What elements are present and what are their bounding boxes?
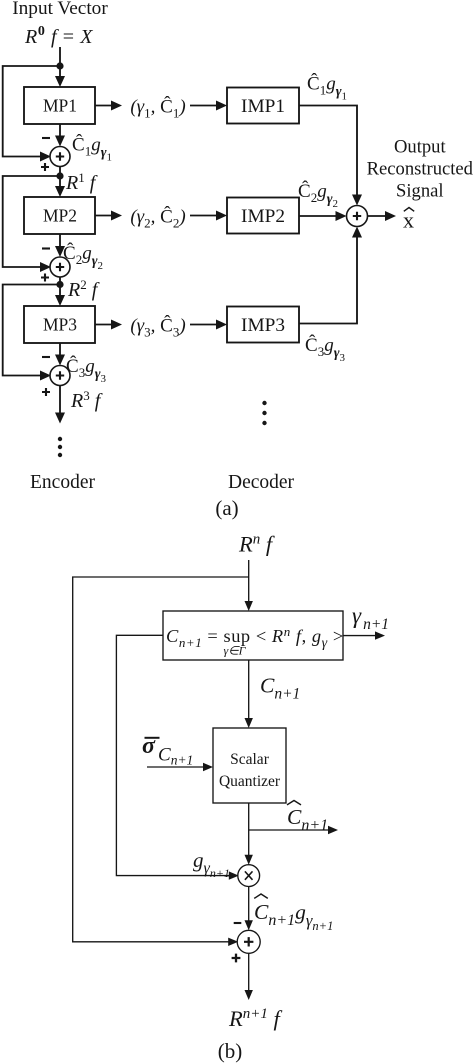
block MP2 bbox=[24, 197, 95, 234]
node: encoder continuation dots bbox=[58, 437, 62, 457]
wire: residual output bbox=[245, 953, 253, 1000]
wire: gamma n+1 arrow bbox=[343, 631, 385, 639]
label: Chat n+1 g gamma n+1 bbox=[254, 894, 333, 933]
adder: subtractor row 1 bbox=[50, 147, 70, 167]
wire: junction to MP3 bbox=[55, 285, 65, 307]
wire: summer output xhat bbox=[368, 211, 397, 221]
svg-text:Input Vector: Input Vector bbox=[12, 0, 108, 19]
wire: input drop to MP1 bbox=[55, 47, 65, 87]
node: decoder continuation dots bbox=[262, 401, 266, 425]
wire: adder1 to R1f junction bbox=[59, 167, 61, 177]
label: (a) caption bbox=[215, 496, 238, 520]
wire: Cn+1 into quantizer bbox=[245, 660, 253, 728]
label: (gamma2, C2) coefficients bbox=[130, 206, 185, 231]
node: R1f junction bbox=[56, 172, 63, 179]
svg-text:IMP3: IMP3 bbox=[241, 315, 285, 336]
label: C3 g gamma3 (decoder) bbox=[305, 334, 346, 364]
wire: MP2 to subtractor bbox=[55, 234, 65, 257]
label: (gamma3, C3) coefficients bbox=[130, 315, 185, 340]
label: xhat reconstructed output bbox=[403, 208, 414, 233]
svg-text:Output: Output bbox=[394, 137, 446, 158]
wire: IMP1 to summer bbox=[299, 106, 362, 206]
label: R0f = X input signal bbox=[24, 24, 93, 48]
wire: coefficients to IMP1 bbox=[190, 101, 227, 111]
label: C3 g gamma3 (encoder) bbox=[66, 355, 107, 385]
wire: adder2 to R2f junction bbox=[59, 277, 61, 285]
svg-text:MP1: MP1 bbox=[43, 96, 77, 116]
svg-text:R0 f = X: R0 f = X bbox=[24, 24, 93, 48]
block: scalar quantizer bbox=[213, 728, 286, 803]
svg-text:IMP2: IMP2 bbox=[241, 206, 285, 227]
label: C2 g gamma2 (encoder) bbox=[63, 242, 103, 272]
block: correlation sup block bbox=[163, 611, 343, 660]
wire: adder3 output R3f bbox=[55, 386, 65, 424]
block IMP3 bbox=[227, 307, 299, 343]
svg-text:Reconstructed: Reconstructed bbox=[367, 159, 474, 180]
wire: MP1 output bbox=[95, 101, 122, 111]
label: sigma bar quantizer step bbox=[142, 733, 193, 768]
label: plus sign row 2 bbox=[41, 274, 49, 282]
label: Decoder caption bbox=[228, 472, 295, 493]
label: C1 g gamma1 (encoder) bbox=[72, 134, 112, 164]
adder: subtractor row 3 bbox=[50, 366, 70, 386]
block MP1 bbox=[24, 87, 95, 124]
label: Rnf input bbox=[238, 532, 275, 557]
svg-text:IMP1: IMP1 bbox=[241, 96, 285, 117]
label: sup formula bbox=[166, 624, 344, 658]
wire: Chat n+1 tap bbox=[249, 826, 338, 834]
label: Output heading bbox=[394, 137, 446, 158]
wire: feedback branch 3 bbox=[3, 285, 60, 381]
label: R2f residual bbox=[67, 277, 100, 301]
label: plus sign row 3 bbox=[42, 388, 50, 396]
node: input junction bbox=[56, 62, 63, 69]
adder: final subtractor bbox=[237, 930, 260, 953]
wire: coefficients to IMP3 bbox=[190, 320, 227, 330]
svg-text:(b): (b) bbox=[218, 1039, 243, 1063]
label: plus sign row 1 bbox=[41, 163, 49, 171]
label: C1 g gamma1 (decoder) bbox=[307, 73, 347, 103]
label: Cn+1 coefficient bbox=[260, 674, 300, 703]
wire: MP3 output bbox=[95, 320, 122, 330]
wire: quantizer output bbox=[248, 803, 250, 830]
wire: IMP3 to summer bbox=[299, 227, 362, 324]
svg-text:MP3: MP3 bbox=[43, 315, 77, 335]
label: minus sign row 2 bbox=[42, 247, 50, 249]
label: Rn+1 f residual bbox=[228, 1006, 283, 1031]
block IMP2 bbox=[227, 198, 299, 234]
label: minus sign row 3 bbox=[42, 356, 50, 358]
wire: IMP2 to summer bbox=[299, 211, 347, 221]
label: gamma n+1 output bbox=[352, 603, 389, 633]
wire: MP3 to subtractor bbox=[55, 343, 65, 366]
label: minus sign row 1 bbox=[42, 137, 50, 139]
wire: Rnf into sup block bbox=[245, 560, 253, 611]
svg-text:(a): (a) bbox=[215, 496, 238, 520]
svg-text:γ∈Γ: γ∈Γ bbox=[223, 644, 246, 658]
wire: scaled atom to subtractor bbox=[245, 887, 253, 931]
svg-text:Signal: Signal bbox=[396, 181, 444, 202]
label: R3f residual bbox=[70, 388, 103, 412]
label: Chat n+1 bbox=[287, 801, 328, 835]
wire: outer feedback to subtractor bbox=[73, 577, 249, 946]
label: Signal heading bbox=[396, 181, 444, 202]
wire: coefficients to IMP2 bbox=[190, 211, 227, 221]
svg-text:Decoder: Decoder bbox=[228, 472, 295, 493]
wire: feedback branch 2 bbox=[3, 176, 60, 272]
adder: subtractor row 2 bbox=[50, 257, 70, 277]
label: minus sign part b bbox=[234, 922, 242, 924]
wire: MP2 output bbox=[95, 211, 122, 221]
label: C2 g gamma2 (decoder) bbox=[298, 180, 338, 210]
label: g gamma n+1 bbox=[193, 848, 230, 880]
svg-text:Encoder: Encoder bbox=[30, 472, 95, 493]
label: (gamma1, C1) coefficients bbox=[130, 96, 185, 121]
block MP3 bbox=[24, 306, 95, 343]
label: R1f residual bbox=[65, 170, 98, 194]
svg-text:Scalar: Scalar bbox=[230, 751, 270, 768]
svg-text:Quantizer: Quantizer bbox=[219, 773, 281, 790]
svg-text:MP2: MP2 bbox=[43, 206, 77, 226]
wire: MP1 to subtractor bbox=[55, 124, 65, 147]
label: Input Vector heading bbox=[12, 0, 108, 19]
block IMP1 bbox=[227, 88, 299, 124]
multiplier: atom scaling bbox=[238, 865, 260, 887]
adder: output summer bbox=[347, 206, 368, 227]
label: plus sign part b bbox=[232, 954, 241, 963]
wire: junction to MP2 bbox=[55, 176, 65, 197]
label: Reconstructed heading bbox=[367, 159, 474, 180]
wire: feedback branch 1 bbox=[3, 66, 60, 162]
label: Encoder caption bbox=[30, 472, 95, 493]
node: R2f junction bbox=[56, 281, 63, 288]
wire: inner feedback to multiplier bbox=[116, 635, 238, 880]
wire: sigma into quantizer bbox=[147, 763, 213, 771]
wire: Chat into multiplier bbox=[245, 830, 253, 865]
label: (b) caption bbox=[218, 1039, 243, 1063]
